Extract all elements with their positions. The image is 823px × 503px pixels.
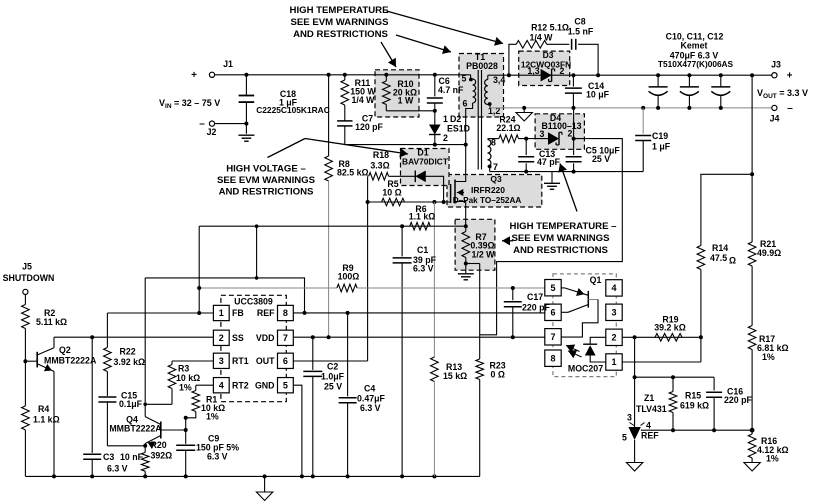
svg-text:AND RESTRICTIONS: AND RESTRICTIONS <box>513 245 608 256</box>
svg-text:4.7 nF: 4.7 nF <box>438 85 464 95</box>
svg-text:4: 4 <box>646 420 651 430</box>
svg-text:25 V: 25 V <box>324 382 342 392</box>
svg-text:PB0028: PB0028 <box>466 61 498 71</box>
svg-text:5: 5 <box>462 74 467 84</box>
svg-text:R4: R4 <box>38 404 49 414</box>
svg-text:Kemet: Kemet <box>681 41 708 51</box>
svg-text:HIGH TEMPERATURE –: HIGH TEMPERATURE – <box>510 221 618 232</box>
svg-text:J3: J3 <box>771 60 781 70</box>
svg-text:1: 1 <box>611 357 616 367</box>
svg-text:10 μF: 10 μF <box>586 90 610 100</box>
svg-text:+: + <box>787 71 793 82</box>
svg-text:D2: D2 <box>450 114 461 124</box>
svg-text:RT1: RT1 <box>232 356 249 366</box>
svg-text:1 μF: 1 μF <box>652 142 671 152</box>
svg-text:3: 3 <box>611 308 616 318</box>
svg-text:6.3 V: 6.3 V <box>107 464 128 474</box>
svg-text:REF: REF <box>641 431 659 441</box>
svg-text:R15: R15 <box>685 391 701 401</box>
svg-text:220 pF: 220 pF <box>522 302 550 312</box>
svg-text:7: 7 <box>283 333 288 343</box>
svg-text:3: 3 <box>540 129 545 139</box>
svg-text:J2: J2 <box>207 127 217 137</box>
svg-text:2: 2 <box>560 66 565 76</box>
svg-text:47.5: 47.5 <box>710 253 727 263</box>
svg-text:0.1μF: 0.1μF <box>119 399 143 409</box>
svg-text:10 Ω: 10 Ω <box>382 187 401 197</box>
svg-text:10 nF: 10 nF <box>120 452 144 462</box>
svg-text:SEE EVM WARNINGS: SEE EVM WARNINGS <box>217 175 316 186</box>
svg-text:1 W: 1 W <box>398 96 414 106</box>
svg-text:1.5 nF: 1.5 nF <box>568 27 594 37</box>
svg-text:AND RESTRICTIONS: AND RESTRICTIONS <box>219 187 314 198</box>
svg-text:1/4 W: 1/4 W <box>352 95 376 105</box>
svg-text:+: + <box>191 70 197 81</box>
svg-text:7: 7 <box>493 162 498 172</box>
svg-text:C19: C19 <box>652 131 668 141</box>
svg-text:C2225C105K1RAC: C2225C105K1RAC <box>256 105 330 115</box>
svg-text:TLV431: TLV431 <box>636 404 667 414</box>
svg-text:C17: C17 <box>527 292 543 302</box>
svg-text:8: 8 <box>283 308 288 318</box>
svg-text:1%: 1% <box>766 454 779 464</box>
svg-text:49.9Ω: 49.9Ω <box>757 248 781 258</box>
svg-text:SEE EVM WARNINGS: SEE EVM WARNINGS <box>290 17 389 28</box>
svg-text:6.3 V: 6.3 V <box>413 263 434 273</box>
svg-text:5: 5 <box>550 283 555 293</box>
svg-text:–: – <box>787 103 793 114</box>
svg-text:220 pF: 220 pF <box>724 395 752 405</box>
svg-text:392Ω: 392Ω <box>151 451 173 461</box>
svg-text:REF: REF <box>257 308 275 318</box>
svg-text:22.1Ω: 22.1Ω <box>496 123 520 133</box>
svg-text:SS: SS <box>232 333 244 343</box>
svg-text:1%: 1% <box>179 383 192 393</box>
svg-text:Ω: Ω <box>729 256 736 266</box>
svg-text:R20: R20 <box>151 440 167 450</box>
svg-text:1%: 1% <box>762 352 775 362</box>
svg-text:4: 4 <box>611 283 616 293</box>
svg-text:5: 5 <box>283 380 288 390</box>
svg-text:AND RESTRICTIONS: AND RESTRICTIONS <box>293 29 388 40</box>
svg-text:J5: J5 <box>22 262 32 272</box>
svg-text:GND: GND <box>255 380 275 390</box>
svg-text:0 Ω: 0 Ω <box>491 370 505 380</box>
svg-text:Z1: Z1 <box>644 393 654 403</box>
svg-text:Q3: Q3 <box>490 174 502 184</box>
svg-text:MMBT2222A: MMBT2222A <box>109 424 162 434</box>
svg-text:3.3Ω: 3.3Ω <box>370 160 389 170</box>
svg-text:6: 6 <box>463 99 468 109</box>
svg-text:47 pF: 47 pF <box>537 157 561 167</box>
svg-text:R3: R3 <box>178 364 189 374</box>
svg-text:MOC207: MOC207 <box>568 363 603 373</box>
svg-text:B1100–13: B1100–13 <box>541 121 581 131</box>
svg-text:10 kΩ: 10 kΩ <box>176 373 200 383</box>
svg-text:Q1: Q1 <box>590 275 602 285</box>
svg-text:3.92 kΩ: 3.92 kΩ <box>114 357 146 367</box>
svg-text:1/2 W: 1/2 W <box>472 249 496 259</box>
svg-text:C8: C8 <box>574 17 585 27</box>
svg-text:UCC3809: UCC3809 <box>234 297 273 307</box>
svg-text:0.47μF: 0.47μF <box>357 394 386 404</box>
svg-text:2: 2 <box>219 333 224 343</box>
svg-text:1.1 kΩ: 1.1 kΩ <box>33 415 60 425</box>
svg-text:82.5 kΩ: 82.5 kΩ <box>337 168 369 178</box>
svg-text:VDD: VDD <box>256 333 275 343</box>
svg-text:1.0μF: 1.0μF <box>321 372 345 382</box>
svg-text:3: 3 <box>219 356 224 366</box>
svg-text:2: 2 <box>611 333 616 343</box>
svg-text:FB: FB <box>232 308 244 318</box>
svg-text:C1: C1 <box>417 245 428 255</box>
svg-text:R22: R22 <box>120 347 136 357</box>
svg-text:BAV70DICT: BAV70DICT <box>402 157 449 167</box>
svg-text:C3: C3 <box>103 452 114 462</box>
svg-text:619 kΩ: 619 kΩ <box>680 401 709 411</box>
svg-text:15 kΩ: 15 kΩ <box>443 371 467 381</box>
svg-text:7: 7 <box>550 332 555 342</box>
svg-text:D–Pak TO–252AA: D–Pak TO–252AA <box>453 196 522 205</box>
svg-text:C2: C2 <box>327 362 338 372</box>
svg-text:6.3 V: 6.3 V <box>360 403 381 413</box>
svg-text:ES1D: ES1D <box>447 124 470 134</box>
svg-text:1.1 kΩ: 1.1 kΩ <box>409 212 436 222</box>
svg-text:3: 3 <box>627 413 632 423</box>
svg-text:Q2: Q2 <box>59 345 71 355</box>
svg-text:R14: R14 <box>712 243 728 253</box>
svg-text:R18: R18 <box>373 150 389 160</box>
svg-text:2: 2 <box>568 129 573 139</box>
svg-text:J4: J4 <box>770 114 780 124</box>
svg-text:R12 5.1Ω: R12 5.1Ω <box>531 23 569 33</box>
svg-text:5.11 kΩ: 5.11 kΩ <box>36 317 67 327</box>
svg-text:1: 1 <box>443 114 448 124</box>
svg-text:SEE EVM WARNINGS: SEE EVM WARNINGS <box>511 233 610 244</box>
svg-text:RT2: RT2 <box>232 380 249 390</box>
svg-text:MMBT2222A: MMBT2222A <box>44 356 97 366</box>
svg-text:HIGH VOLTAGE –: HIGH VOLTAGE – <box>226 164 306 175</box>
svg-text:39.2 kΩ: 39.2 kΩ <box>654 322 686 332</box>
svg-text:6.3 V: 6.3 V <box>207 452 228 462</box>
svg-text:IRFR220: IRFR220 <box>471 185 505 195</box>
svg-text:4: 4 <box>219 380 224 390</box>
svg-text:OUT: OUT <box>256 356 275 366</box>
svg-text:8: 8 <box>550 353 555 363</box>
svg-text:2: 2 <box>443 133 448 143</box>
svg-text:1/4 W: 1/4 W <box>530 33 554 43</box>
svg-text:6: 6 <box>550 308 555 318</box>
svg-text:3,4: 3,4 <box>493 75 505 85</box>
svg-text:5: 5 <box>622 433 627 443</box>
svg-text:100Ω: 100Ω <box>338 272 360 282</box>
svg-text:SHUTDOWN: SHUTDOWN <box>3 273 55 283</box>
svg-text:1,3: 1,3 <box>527 66 539 76</box>
svg-text:HIGH TEMPERATURE: HIGH TEMPERATURE <box>290 5 390 16</box>
svg-text:T510X477(K)006AS: T510X477(K)006AS <box>658 59 734 69</box>
svg-text:1%: 1% <box>206 412 219 422</box>
svg-text:120 pF: 120 pF <box>355 122 383 132</box>
svg-text:6: 6 <box>283 356 288 366</box>
svg-text:–: – <box>199 119 205 130</box>
svg-text:25 V: 25 V <box>592 154 610 164</box>
svg-text:D3: D3 <box>543 50 554 60</box>
svg-text:J1: J1 <box>223 59 233 69</box>
svg-text:C4: C4 <box>364 384 375 394</box>
svg-text:1: 1 <box>219 308 224 318</box>
